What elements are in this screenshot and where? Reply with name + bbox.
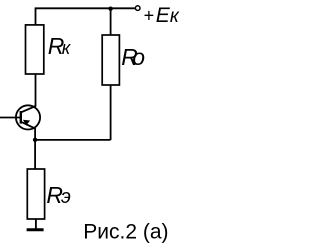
svg-text:E: E: [156, 4, 171, 27]
svg-text:Рис.2 (а): Рис.2 (а): [83, 220, 168, 243]
svg-text:э: э: [61, 186, 71, 208]
svg-text:к: к: [170, 6, 180, 27]
svg-text:+: +: [143, 5, 154, 25]
svg-text:о: о: [132, 44, 145, 70]
svg-text:к: к: [62, 38, 72, 58]
